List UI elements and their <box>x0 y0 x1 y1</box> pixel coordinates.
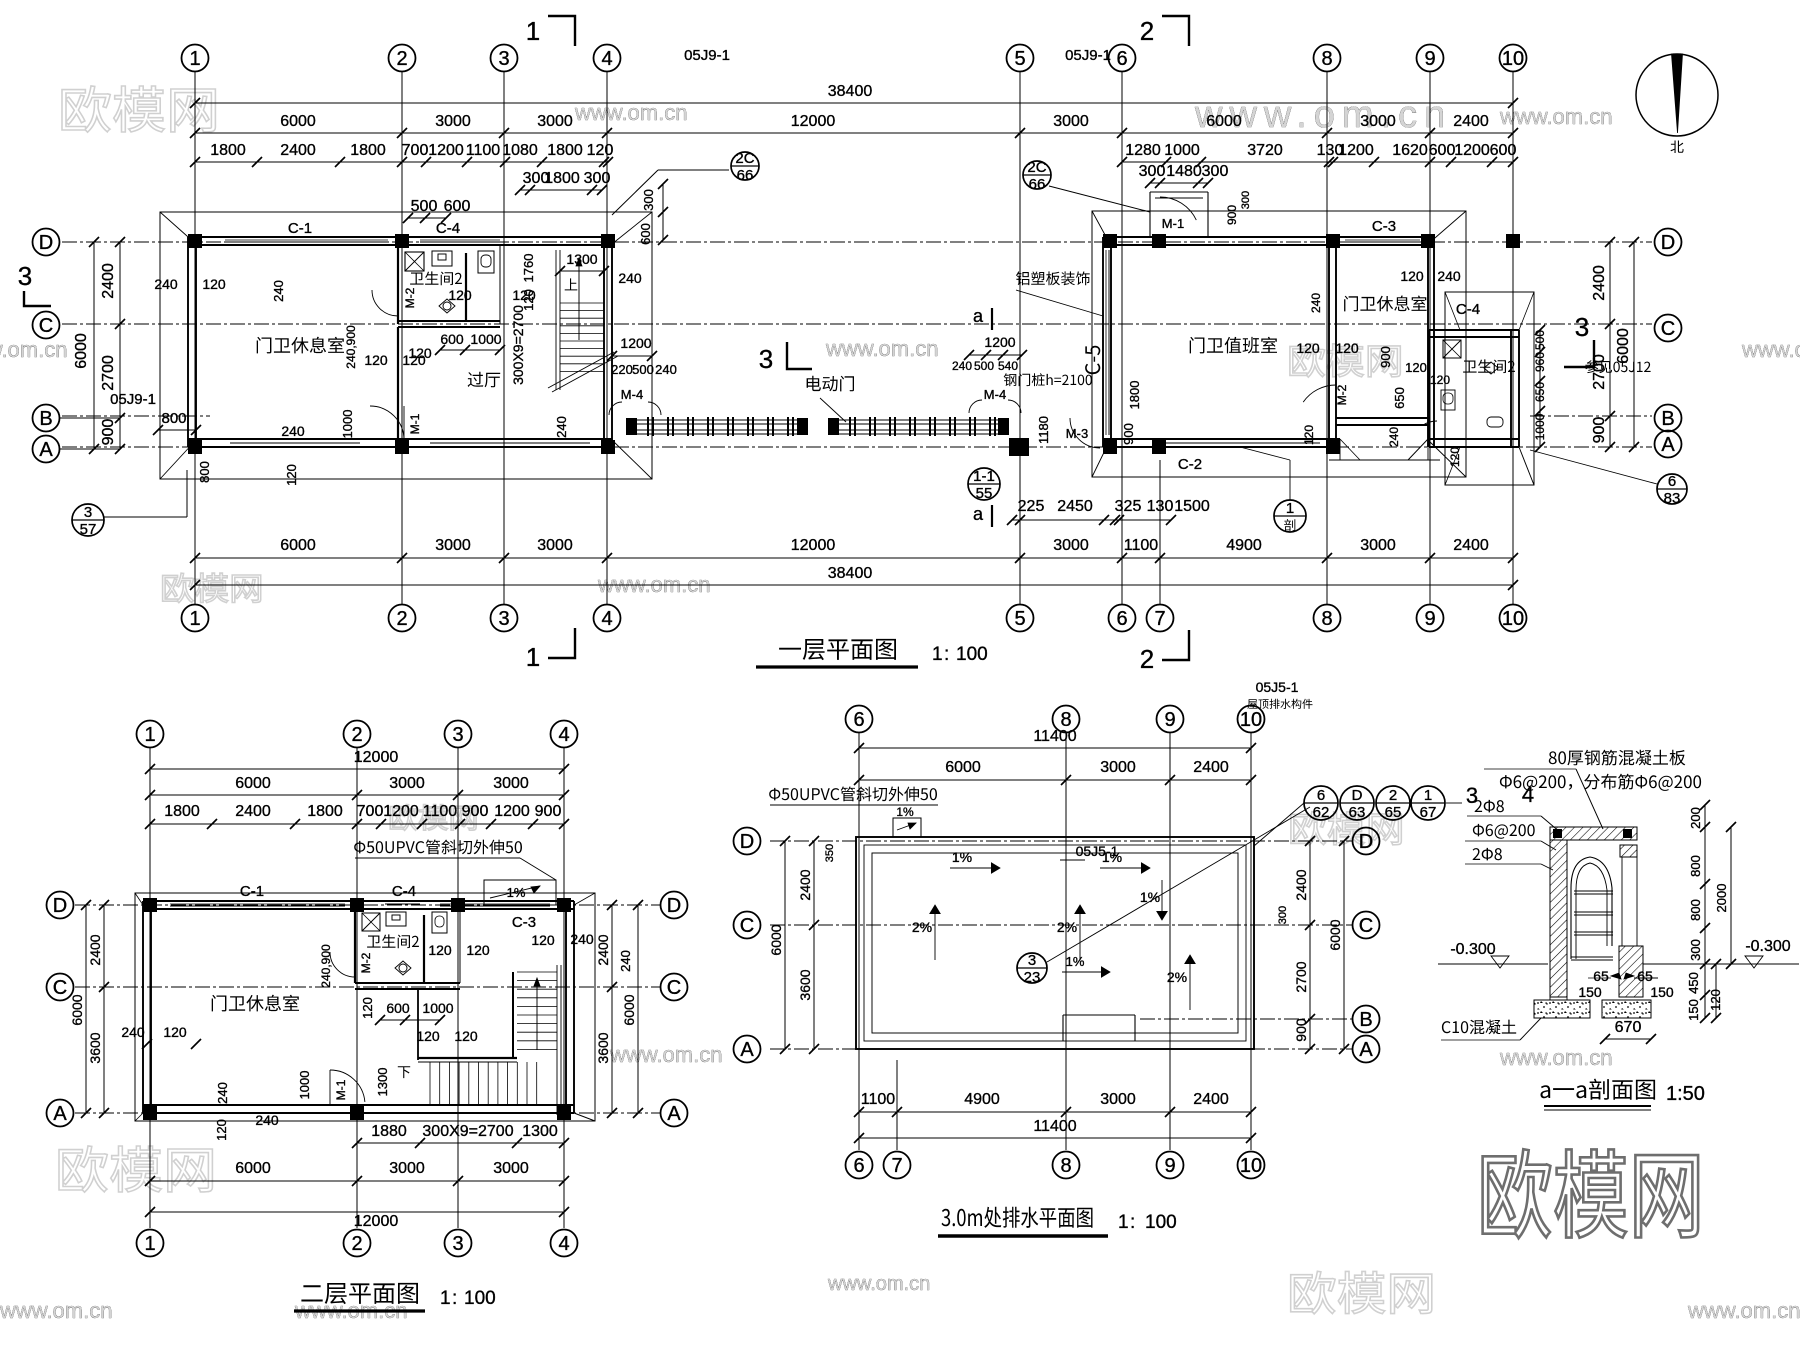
svg-text:-0.300: -0.300 <box>1450 941 1495 958</box>
stair tread <box>560 310 604 312</box>
svg-text:3000: 3000 <box>1360 113 1396 130</box>
grid 1 <box>149 748 151 1228</box>
grid bubble 10 <box>1500 45 1527 72</box>
detail bubble 3/57 <box>72 504 104 536</box>
svg-text:65: 65 <box>1637 968 1653 984</box>
svg-text:C-3: C-3 <box>1372 218 1396 235</box>
svg-text:7: 7 <box>1154 608 1165 630</box>
column <box>1103 440 1117 454</box>
svg-text:6000: 6000 <box>280 537 316 554</box>
dimension line <box>637 905 639 1113</box>
watermarks <box>62 86 215 132</box>
svg-text:240,900: 240,900 <box>344 325 358 369</box>
svg-text:1200: 1200 <box>428 142 464 159</box>
svg-text:2: 2 <box>396 608 407 630</box>
door M-3 <box>1070 418 1100 448</box>
axis A <box>75 1112 660 1114</box>
svg-text:3: 3 <box>452 1233 463 1255</box>
svg-text:05J5-1: 05J5-1 <box>1076 843 1119 859</box>
svg-text:2%: 2% <box>912 919 932 935</box>
svg-text:C-4: C-4 <box>436 220 460 237</box>
svg-text:700: 700 <box>402 142 429 159</box>
svg-text:C: C <box>740 915 754 937</box>
svg-text:4: 4 <box>1522 782 1534 807</box>
grid bubble 2 <box>344 721 371 748</box>
window C-4 <box>420 239 500 241</box>
svg-text:1800: 1800 <box>307 803 343 820</box>
svg-text:1800: 1800 <box>544 170 580 187</box>
svg-text:7: 7 <box>891 1155 902 1177</box>
svg-text:1000: 1000 <box>422 1000 453 1016</box>
dimension line <box>813 841 815 1049</box>
dimension line <box>859 779 1251 781</box>
porch bottom <box>1339 439 1341 460</box>
svg-text:C-4: C-4 <box>1456 301 1480 318</box>
svg-text:-0.300: -0.300 <box>1745 938 1790 955</box>
svg-text:M-2: M-2 <box>1335 384 1349 405</box>
column <box>451 898 465 912</box>
svg-text:1200: 1200 <box>984 334 1015 350</box>
svg-text:1000: 1000 <box>470 331 501 347</box>
svg-text:2: 2 <box>396 48 407 70</box>
detail bubble 2C/66 <box>1023 161 1051 189</box>
dimension line <box>150 1211 564 1213</box>
grid line 7 <box>1159 460 1161 604</box>
dimension line <box>195 584 1513 586</box>
svg-text:1300: 1300 <box>375 1068 390 1097</box>
svg-text:www.om.cn: www.om.cn <box>1499 1045 1612 1070</box>
svg-text:3: 3 <box>759 344 773 374</box>
dimension line <box>93 242 95 449</box>
curtain wall C-5 <box>1105 250 1107 435</box>
grid bubble C <box>661 974 688 1001</box>
svg-text:220: 220 <box>611 362 633 377</box>
grid bubble 9 <box>1157 706 1184 733</box>
section mark 1 top <box>548 16 575 46</box>
door arc M-2 bathroom <box>372 290 398 316</box>
svg-text:300: 300 <box>1139 163 1166 180</box>
svg-text:800: 800 <box>1688 899 1703 921</box>
section mark 3 right <box>1564 340 1594 367</box>
dimension line <box>1609 242 1611 447</box>
svg-text:4: 4 <box>558 724 569 746</box>
dimension line <box>1012 519 1171 521</box>
grid bubble B <box>1353 1006 1380 1033</box>
grid bubble 6 <box>846 706 873 733</box>
svg-text:C-4: C-4 <box>392 883 416 900</box>
drainage slope arrows <box>934 905 936 960</box>
svg-text:D: D <box>1352 787 1363 804</box>
grid 4 <box>563 748 565 1228</box>
svg-text:240: 240 <box>215 1082 230 1104</box>
svg-text:www.om.cn: www.om.cn <box>0 1298 112 1323</box>
stair tread <box>517 1023 557 1025</box>
svg-text:1760: 1760 <box>521 254 536 283</box>
column <box>350 1106 364 1120</box>
svg-text:A: A <box>53 1103 67 1125</box>
svg-text:2%: 2% <box>1167 969 1187 985</box>
grid bubble 8 <box>1053 706 1080 733</box>
svg-text:120: 120 <box>1405 360 1427 375</box>
svg-text:1500: 1500 <box>1174 498 1210 515</box>
column <box>557 1106 571 1120</box>
grid bubble 1 <box>137 721 164 748</box>
svg-text:a: a <box>973 306 984 326</box>
window C-2 <box>1165 442 1320 444</box>
svg-text:3000: 3000 <box>1100 1091 1136 1108</box>
svg-text:450: 450 <box>1686 972 1701 994</box>
svg-text:3720: 3720 <box>1247 142 1283 159</box>
svg-text:B: B <box>1661 408 1674 430</box>
svg-text:500: 500 <box>974 359 994 373</box>
grid bubble C <box>1353 912 1380 939</box>
svg-text:www.om.cn: www.om.cn <box>1499 104 1612 129</box>
grid bubble C <box>47 974 74 1001</box>
dimension line <box>1715 964 1717 1018</box>
svg-text:10: 10 <box>1240 709 1262 731</box>
column <box>395 234 409 248</box>
svg-text::: : <box>944 644 949 665</box>
interior wall bottom of rest room <box>1336 417 1429 419</box>
grid bubble 9 <box>1157 1152 1184 1179</box>
svg-text:1100: 1100 <box>466 142 501 159</box>
dimension line <box>195 102 1513 104</box>
grid bubble 5 <box>1007 605 1034 632</box>
svg-text:9: 9 <box>1424 48 1435 70</box>
svg-text:2400: 2400 <box>1591 265 1608 301</box>
column <box>1103 234 1117 248</box>
grid line 10 <box>1512 72 1514 604</box>
grid bubble 6 <box>846 1152 873 1179</box>
svg-text:3000: 3000 <box>1360 537 1396 554</box>
svg-text:6000: 6000 <box>945 759 981 776</box>
door M-4 left <box>609 402 622 415</box>
svg-text:M-4: M-4 <box>621 387 643 402</box>
left building exterior walls <box>188 236 612 238</box>
svg-text:100: 100 <box>1145 1212 1177 1233</box>
svg-text:www.om.cn: www.om.cn <box>825 336 938 361</box>
svg-text:C-1: C-1 <box>240 883 264 900</box>
axis B right <box>1530 415 1652 417</box>
svg-text:1000: 1000 <box>1164 142 1200 159</box>
grid bubble 1 <box>182 45 209 72</box>
svg-text:12000: 12000 <box>354 1213 399 1230</box>
grid 7 <box>896 1060 898 1150</box>
svg-text:1200: 1200 <box>1454 142 1490 159</box>
grid line 2 <box>401 72 403 604</box>
grid bubble D <box>1655 229 1682 256</box>
svg-text:05J5-1: 05J5-1 <box>1256 679 1299 695</box>
svg-text:240: 240 <box>655 362 677 377</box>
svg-text:300: 300 <box>1277 906 1289 924</box>
left building roof overhang <box>160 212 652 479</box>
svg-text:65: 65 <box>1593 968 1609 984</box>
detail bubble D/63 <box>1340 786 1374 820</box>
svg-text:3000: 3000 <box>493 775 529 792</box>
svg-text:200: 200 <box>1688 807 1703 829</box>
svg-text:M-2: M-2 <box>359 952 373 973</box>
stair tread <box>560 355 604 357</box>
svg-text:C-1: C-1 <box>288 220 312 237</box>
svg-text:900: 900 <box>100 419 117 446</box>
grid bubble 8 <box>1314 45 1341 72</box>
dimension line <box>969 354 1022 356</box>
column <box>1326 440 1340 454</box>
svg-text:57: 57 <box>80 521 97 538</box>
svg-text:B: B <box>39 408 52 430</box>
door arc partition <box>1303 385 1336 402</box>
svg-text:10: 10 <box>1240 1155 1262 1177</box>
svg-text:3600: 3600 <box>87 1032 103 1063</box>
stair tread <box>536 1062 538 1105</box>
svg-text:9: 9 <box>1424 608 1435 630</box>
dimension line <box>1605 1038 1651 1040</box>
grid bubble 4 <box>594 605 621 632</box>
svg-text:A: A <box>39 439 53 461</box>
svg-text:300: 300 <box>1240 191 1252 209</box>
dimension line <box>1730 827 1732 964</box>
svg-text:900: 900 <box>535 803 562 820</box>
svg-text:1300: 1300 <box>522 1123 558 1140</box>
svg-text:5: 5 <box>1014 48 1025 70</box>
svg-text:1%: 1% <box>1066 954 1085 969</box>
grid bubble 10 <box>1238 1152 1265 1179</box>
gate post column <box>1009 438 1029 456</box>
svg-text:120: 120 <box>416 1028 440 1044</box>
svg-text:1100: 1100 <box>1124 537 1159 554</box>
grid bubble B <box>33 405 60 432</box>
svg-text:2700: 2700 <box>100 355 117 391</box>
svg-text:1200: 1200 <box>383 803 419 820</box>
dimension line <box>150 823 564 825</box>
svg-text:120: 120 <box>202 276 226 292</box>
svg-text:1: 1 <box>144 1233 155 1255</box>
grid bubble 6 <box>1109 45 1136 72</box>
svg-text:120: 120 <box>512 287 536 303</box>
svg-text:120: 120 <box>364 352 388 368</box>
dimension line <box>85 905 87 1113</box>
svg-text:120: 120 <box>587 142 614 159</box>
svg-text:2400: 2400 <box>1453 113 1489 130</box>
svg-text:300: 300 <box>641 189 656 211</box>
grid bubble 4 <box>551 721 578 748</box>
grid bubble 2 <box>389 605 416 632</box>
svg-text:3000: 3000 <box>435 113 471 130</box>
grid bubble A <box>661 1100 688 1127</box>
svg-text:11400: 11400 <box>1033 1118 1076 1135</box>
svg-text:D: D <box>740 831 754 853</box>
grid bubble 2 <box>344 1230 371 1257</box>
grid bubble D <box>661 892 688 919</box>
svg-text:120: 120 <box>454 1028 478 1044</box>
hall 过厅 <box>468 372 501 388</box>
stair tread <box>487 1062 489 1105</box>
svg-text:12000: 12000 <box>791 113 836 130</box>
svg-text:900: 900 <box>1591 417 1608 444</box>
svg-text:8: 8 <box>1321 608 1332 630</box>
svg-text:10: 10 <box>1502 48 1524 70</box>
svg-text:M-1: M-1 <box>408 413 422 434</box>
grid 8 <box>1065 733 1067 1150</box>
svg-text:600: 600 <box>1429 142 1456 159</box>
svg-text:2400: 2400 <box>1193 1091 1229 1108</box>
grid 10 <box>1250 733 1252 1150</box>
svg-text:3000: 3000 <box>537 537 573 554</box>
partition second floor <box>417 989 419 1060</box>
detail bubble 1 right <box>1274 500 1306 532</box>
dimension line <box>1122 161 1513 163</box>
right building roof overhang <box>1092 211 1466 477</box>
grid bubble 10 <box>1238 706 1265 733</box>
stair tread <box>560 348 604 350</box>
stair second floor <box>512 972 514 1058</box>
svg-text:150: 150 <box>1686 999 1701 1021</box>
motor gate 电动门 label <box>807 376 854 392</box>
svg-text:120: 120 <box>1448 447 1462 467</box>
svg-text:4: 4 <box>601 608 612 630</box>
svg-text:3000: 3000 <box>1053 113 1089 130</box>
grid bubble 3 <box>445 1230 472 1257</box>
svg-text:3: 3 <box>1028 952 1036 969</box>
svg-text:300: 300 <box>584 170 611 187</box>
grid bubble 9 <box>1417 605 1444 632</box>
svg-text:240: 240 <box>154 276 178 292</box>
svg-text:38400: 38400 <box>828 83 873 100</box>
svg-text:3000: 3000 <box>389 1160 425 1177</box>
grid bubble A <box>47 1100 74 1127</box>
gate fence <box>626 418 637 435</box>
svg-text:M-2: M-2 <box>403 287 417 308</box>
svg-text:240: 240 <box>554 416 569 438</box>
grid bubble 5 <box>1007 45 1034 72</box>
column <box>1421 234 1435 248</box>
svg-text:2400: 2400 <box>1453 537 1489 554</box>
grid bubble 7 <box>884 1152 911 1179</box>
dimension line <box>784 841 786 1049</box>
svg-text:D: D <box>1359 831 1373 853</box>
svg-text:1000: 1000 <box>340 410 355 439</box>
svg-text:www.om.cn: www.om.cn <box>827 1273 930 1295</box>
grid bubble C <box>1655 315 1682 342</box>
svg-text::: : <box>1130 1212 1135 1233</box>
svg-text:1800: 1800 <box>1127 381 1142 410</box>
column <box>1152 234 1166 248</box>
svg-text:300X9=2700: 300X9=2700 <box>422 1123 513 1140</box>
section notes <box>1549 750 1686 766</box>
svg-text:6000: 6000 <box>1615 328 1632 364</box>
svg-text:1480: 1480 <box>1166 163 1202 180</box>
dimension line <box>150 794 564 796</box>
svg-text:11400: 11400 <box>1033 728 1076 745</box>
svg-text:500: 500 <box>632 362 654 377</box>
svg-text:www.om.cn: www.om.cn <box>609 1042 722 1067</box>
grid bubble B <box>1655 405 1682 432</box>
dimension line <box>520 189 602 191</box>
grid bubble 6 <box>1109 605 1136 632</box>
dimension line <box>1539 330 1541 447</box>
stair tread <box>517 1014 557 1016</box>
svg-text:900: 900 <box>1121 423 1136 445</box>
svg-text:600: 600 <box>386 1000 410 1016</box>
svg-text:100: 100 <box>956 644 988 665</box>
grid bubble 8 <box>1314 605 1341 632</box>
axis B <box>62 415 210 417</box>
stair tread <box>560 332 604 334</box>
column <box>601 440 615 454</box>
svg-text:D: D <box>53 895 67 917</box>
svg-text:62: 62 <box>1313 804 1330 821</box>
svg-text:6000: 6000 <box>280 113 316 130</box>
grid bubble D <box>33 229 60 256</box>
svg-text:4: 4 <box>601 48 612 70</box>
svg-text:120: 120 <box>163 1024 187 1040</box>
dimension line <box>119 242 121 449</box>
svg-text:55: 55 <box>976 485 993 502</box>
svg-text:2%: 2% <box>1057 919 1077 935</box>
svg-text:300: 300 <box>1202 163 1229 180</box>
svg-text:120: 120 <box>428 942 452 958</box>
svg-text:1: 1 <box>189 608 200 630</box>
svg-text:4900: 4900 <box>964 1091 1000 1108</box>
svg-text:120: 120 <box>448 287 472 303</box>
drainage upvc note <box>769 787 937 802</box>
svg-text:1080: 1080 <box>502 142 538 159</box>
svg-text:240: 240 <box>255 1112 279 1128</box>
section mark 2 top <box>1162 16 1189 46</box>
section arch <box>1571 857 1612 959</box>
svg-text:M-1: M-1 <box>1162 216 1184 231</box>
svg-text:C: C <box>1661 318 1675 340</box>
svg-text:12000: 12000 <box>791 537 836 554</box>
stair tread <box>468 1062 470 1105</box>
svg-text:3000: 3000 <box>389 775 425 792</box>
svg-text:www.om.cn: www.om.cn <box>0 337 67 362</box>
stair tread <box>560 340 604 342</box>
section slab <box>1550 827 1637 840</box>
stair tread <box>517 980 557 982</box>
svg-text:3000: 3000 <box>1053 537 1089 554</box>
grid 9 <box>1169 733 1171 1150</box>
section leader lines <box>1484 768 1576 770</box>
grid bubble A <box>734 1036 761 1063</box>
svg-text:1100: 1100 <box>423 803 458 820</box>
svg-text:66: 66 <box>737 167 754 184</box>
svg-text:1%: 1% <box>952 849 972 865</box>
column <box>395 440 409 454</box>
title 二层平面图 <box>301 1283 418 1304</box>
svg-text:2400: 2400 <box>100 263 117 299</box>
svg-text:300X9=2700: 300X9=2700 <box>510 305 526 385</box>
svg-text:240: 240 <box>121 1024 145 1040</box>
svg-text:3: 3 <box>84 504 92 521</box>
svg-text:900: 900 <box>1378 346 1393 368</box>
grid bubble D <box>47 892 74 919</box>
svg-text:a: a <box>973 504 984 524</box>
svg-text:4900: 4900 <box>1226 537 1262 554</box>
svg-text:800: 800 <box>1688 855 1703 877</box>
dimension line <box>859 747 1251 749</box>
north compass <box>1636 54 1718 136</box>
svg-text:1: 1 <box>440 1288 451 1309</box>
svg-text:300: 300 <box>1688 939 1703 961</box>
axis C <box>770 924 1352 926</box>
svg-text:120: 120 <box>466 942 490 958</box>
section left wall <box>1550 840 1567 997</box>
svg-text:1:50: 1:50 <box>1666 1083 1705 1105</box>
gate fence <box>828 418 839 435</box>
svg-text:2C: 2C <box>735 150 754 167</box>
svg-text:3600: 3600 <box>797 969 813 1000</box>
